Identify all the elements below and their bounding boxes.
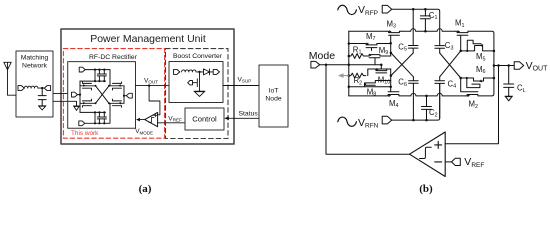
svg-text:VRFP: VRFP bbox=[358, 4, 378, 17]
rect: bottom coupling cap 2 bbox=[102, 112, 106, 123]
rect: bottom coupling cap 1 bbox=[97, 112, 101, 123]
rect: left spine bbox=[79, 81, 81, 112]
svg-text:(b): (b) bbox=[419, 183, 433, 195]
MN output port bbox=[44, 86, 50, 91]
svg-text:M3: M3 bbox=[387, 20, 397, 30]
MN shunt capacitor bbox=[38, 88, 46, 106]
boost NMOS switch bbox=[193, 72, 200, 91]
comparator minus input wire to VREF/Control bbox=[158, 122, 185, 124]
rect: top inner rail junctions bbox=[94, 80, 106, 82]
VRFN junction C6 branch bbox=[412, 119, 415, 122]
MN input port bbox=[18, 86, 24, 91]
output rail bbox=[493, 51, 495, 81]
rect: top feed vertical bbox=[94, 70, 96, 82]
Mode wire bbox=[320, 64, 381, 66]
transistor M6 bbox=[461, 78, 494, 88]
resistor R2 bbox=[349, 69, 369, 78]
svg-text:R1: R1 bbox=[353, 46, 362, 56]
comparator (mode) triangle bbox=[145, 113, 158, 127]
svg-text:M4: M4 bbox=[389, 99, 399, 109]
left RF vertical to C5 bbox=[412, 9, 414, 45]
C1 capacitor bbox=[420, 9, 430, 31]
Control box bbox=[185, 108, 224, 130]
right X diagonal 1 bbox=[440, 53, 461, 78]
rect: bottom rail wire bbox=[85, 103, 110, 123]
resistor R1 bbox=[349, 54, 366, 59]
svg-text:VMODE: VMODE bbox=[135, 128, 153, 135]
rect: cross diagonal 1 bbox=[96, 86, 110, 104]
rect: bottom inner rail junctions bbox=[94, 111, 106, 113]
IoT Node box bbox=[259, 65, 288, 127]
left block rail bbox=[348, 31, 350, 96]
svg-text:C2: C2 bbox=[429, 108, 438, 118]
right upper gate node bbox=[459, 50, 462, 53]
right lower gate node bbox=[459, 77, 462, 80]
svg-text:RF-DC Rectifier: RF-DC Rectifier bbox=[89, 54, 138, 61]
svg-text:Node: Node bbox=[265, 96, 281, 103]
VRFP junction C1 branch bbox=[424, 8, 427, 11]
bottom internal rail with hops bbox=[349, 80, 494, 96]
rect: lower-left transistor bbox=[80, 99, 96, 107]
svg-text:M2: M2 bbox=[469, 100, 479, 110]
left lower gate stub bbox=[390, 69, 392, 87]
substrate arrow bbox=[338, 73, 349, 78]
comparator (b) plus sign bbox=[435, 141, 442, 148]
comparator feedback wire bbox=[326, 65, 410, 155]
VOUT node bbox=[148, 84, 150, 86]
rect: top inner rail bbox=[80, 80, 106, 82]
boost input port bbox=[174, 69, 180, 74]
VREF port (b) bbox=[452, 158, 461, 165]
R2 rail junction bbox=[348, 74, 351, 77]
svg-text:C5: C5 bbox=[398, 42, 407, 52]
rect: output node wire bbox=[124, 95, 126, 97]
wire VOUT down to comparator plus bbox=[149, 86, 160, 115]
boost ground bbox=[194, 91, 205, 96]
rect: right port bbox=[126, 93, 132, 98]
boost NMOS gate port bbox=[188, 81, 193, 85]
left upper gate stub bbox=[390, 43, 392, 56]
svg-text:C1: C1 bbox=[429, 11, 438, 21]
rect: output node bbox=[123, 95, 125, 97]
svg-text:Matching: Matching bbox=[21, 55, 49, 62]
antenna feed wire bbox=[8, 70, 17, 95]
rect: bottom rail junctions bbox=[94, 122, 106, 124]
black dashed box boost converter bbox=[166, 49, 229, 139]
C4 capacitor bbox=[435, 77, 445, 118]
comparator (b) hysteresis glyph bbox=[420, 147, 432, 158]
VOUT wire rectifier to boost bbox=[136, 85, 170, 87]
VOUT wire (b) bbox=[494, 65, 514, 67]
lower stub junctions bbox=[389, 74, 392, 88]
comparator (b) triangle bbox=[410, 132, 446, 177]
C1 bottom junction bbox=[424, 30, 427, 33]
rect: mid-left port wire bbox=[78, 94, 81, 96]
antenna bbox=[4, 62, 11, 70]
C5 capacitor bbox=[408, 46, 418, 54]
svg-text:Control: Control bbox=[192, 115, 217, 124]
VMODE output wire with arrow into rectifier bbox=[136, 118, 145, 122]
boost diode bbox=[200, 69, 214, 75]
svg-text:Mode: Mode bbox=[309, 50, 335, 62]
svg-text:VREF: VREF bbox=[168, 115, 182, 122]
svg-text:Status: Status bbox=[239, 110, 259, 117]
transistor M4 bbox=[386, 87, 402, 97]
svg-text:C6: C6 bbox=[398, 78, 407, 88]
VSUP wire boost to IoT bbox=[223, 85, 259, 87]
Mode port bbox=[311, 61, 320, 68]
boost inductor bbox=[182, 70, 200, 72]
output rail junctions bbox=[493, 50, 496, 80]
top internal rail with hops bbox=[349, 29, 494, 51]
right X diagonal 2 bbox=[440, 51, 461, 77]
CL capacitor bbox=[504, 66, 514, 97]
rect: cross diagonal 2 bbox=[96, 86, 110, 104]
boost switch node bbox=[198, 71, 200, 73]
transistor M10 bbox=[369, 65, 391, 73]
svg-text:C4: C4 bbox=[448, 80, 457, 90]
rect: right spine bbox=[123, 86, 125, 104]
svg-text:M8: M8 bbox=[367, 87, 377, 97]
svg-text:M5: M5 bbox=[476, 52, 486, 62]
Status wire IoT to Control with arrow bbox=[224, 116, 259, 120]
VRFN junction C2 branch bbox=[425, 119, 428, 122]
rect: bottom-left port bbox=[79, 121, 85, 126]
rect: top rail junctions bbox=[94, 69, 106, 71]
left X diagonal 1 bbox=[391, 53, 413, 76]
transistor M1 bbox=[455, 30, 468, 51]
rect: top coupling cap 2 bbox=[102, 70, 106, 82]
VOUT port (b) bbox=[514, 62, 524, 70]
wire MN to rectifier (gnd ref) bbox=[53, 100, 77, 102]
upper stub junctions bbox=[389, 42, 392, 54]
wire MN to rectifier (RF+) bbox=[53, 93, 68, 95]
PMU outer box bbox=[61, 29, 234, 144]
svg-text:R2: R2 bbox=[354, 76, 363, 86]
boost inner box bbox=[169, 62, 223, 103]
svg-text:This work: This work bbox=[71, 130, 99, 137]
M6 gate junction bbox=[466, 77, 468, 79]
rect: mid-left port bbox=[72, 92, 78, 97]
transistor M7 bbox=[349, 43, 391, 51]
svg-text:VSUP: VSUP bbox=[238, 76, 252, 83]
VRFN wire bbox=[392, 84, 440, 121]
svg-text:Power Management Unit: Power Management Unit bbox=[90, 33, 206, 45]
Mode junction to comparator bbox=[325, 63, 328, 66]
svg-text:M6: M6 bbox=[476, 65, 486, 75]
rect: top coupling cap 1 bbox=[97, 70, 101, 82]
VRFN sine symbol bbox=[338, 117, 357, 126]
VOUT junctions bbox=[493, 64, 510, 67]
svg-text:Network: Network bbox=[22, 63, 48, 70]
transistor M3 bbox=[386, 30, 402, 43]
svg-text:C3: C3 bbox=[445, 41, 454, 51]
MN ground bbox=[38, 106, 46, 110]
svg-text:CL: CL bbox=[517, 84, 526, 94]
rect: lower-right transistor bbox=[109, 99, 124, 107]
svg-text:M9: M9 bbox=[379, 46, 389, 56]
comparator hysteresis glyph bbox=[149, 118, 154, 123]
VRFN port bbox=[382, 116, 392, 124]
RF-DC Rectifier box bbox=[68, 62, 136, 129]
svg-text:VOUT: VOUT bbox=[144, 77, 158, 84]
VRFP port bbox=[382, 5, 392, 13]
svg-text:VRFN: VRFN bbox=[358, 117, 379, 130]
svg-text:M1: M1 bbox=[455, 19, 465, 29]
rect: top-left port bbox=[79, 67, 85, 72]
boost output port bbox=[213, 69, 219, 74]
C6 capacitor bbox=[409, 77, 419, 120]
svg-text:(a): (a) bbox=[139, 183, 152, 195]
C2 capacitor bbox=[422, 96, 432, 120]
M7 rail junction bbox=[348, 42, 351, 45]
wire VOUT to comparator plus (b) bbox=[445, 66, 498, 144]
transistor M9 bbox=[366, 54, 391, 65]
M10 drain junction bbox=[380, 63, 383, 66]
transistor M2 bbox=[461, 78, 481, 97]
rect: mid-left node bbox=[79, 94, 81, 96]
node bbox=[41, 87, 43, 89]
comparator (b) minus sign bbox=[435, 161, 442, 163]
VRFP junction C5 branch bbox=[412, 8, 415, 11]
svg-text:VOUT: VOUT bbox=[526, 60, 549, 73]
Matching Network box bbox=[16, 51, 53, 117]
rect: upper-left transistor bbox=[80, 82, 96, 90]
svg-text:VREF: VREF bbox=[464, 156, 484, 169]
svg-text:Boost Converter: Boost Converter bbox=[173, 53, 223, 60]
svg-text:IoT: IoT bbox=[269, 88, 279, 95]
rect: top rail wire bbox=[85, 70, 110, 86]
VRFP wire bbox=[392, 9, 440, 45]
transistor M8 bbox=[349, 81, 391, 87]
VRFP sine symbol bbox=[338, 5, 357, 14]
left X diagonal 2 bbox=[391, 53, 414, 77]
transistor M5 bbox=[461, 40, 494, 51]
Mode rail junction bbox=[348, 63, 351, 66]
M5 gate junction bbox=[466, 50, 468, 52]
wire coil to node bbox=[38, 87, 44, 89]
R1 rail junction bbox=[348, 55, 351, 58]
comparator plus sign bbox=[154, 114, 157, 117]
rect: upper-right transistor bbox=[109, 82, 124, 90]
svg-text:M7: M7 bbox=[366, 32, 376, 42]
rect: bottom inner rail bbox=[80, 111, 106, 113]
M8 rail junction bbox=[348, 86, 351, 89]
rect: bottom feed vertical bbox=[94, 112, 96, 123]
C3 capacitor bbox=[435, 46, 445, 53]
rect: internal ground bbox=[74, 101, 80, 110]
red dashed box: This work bbox=[63, 49, 164, 139]
MN inductor L bbox=[24, 86, 38, 88]
C2 top junction bbox=[425, 95, 428, 98]
CL ground bbox=[505, 96, 512, 101]
rect: X corner junctions bbox=[95, 85, 111, 105]
comparator minus wire to VREF port bbox=[445, 161, 451, 163]
